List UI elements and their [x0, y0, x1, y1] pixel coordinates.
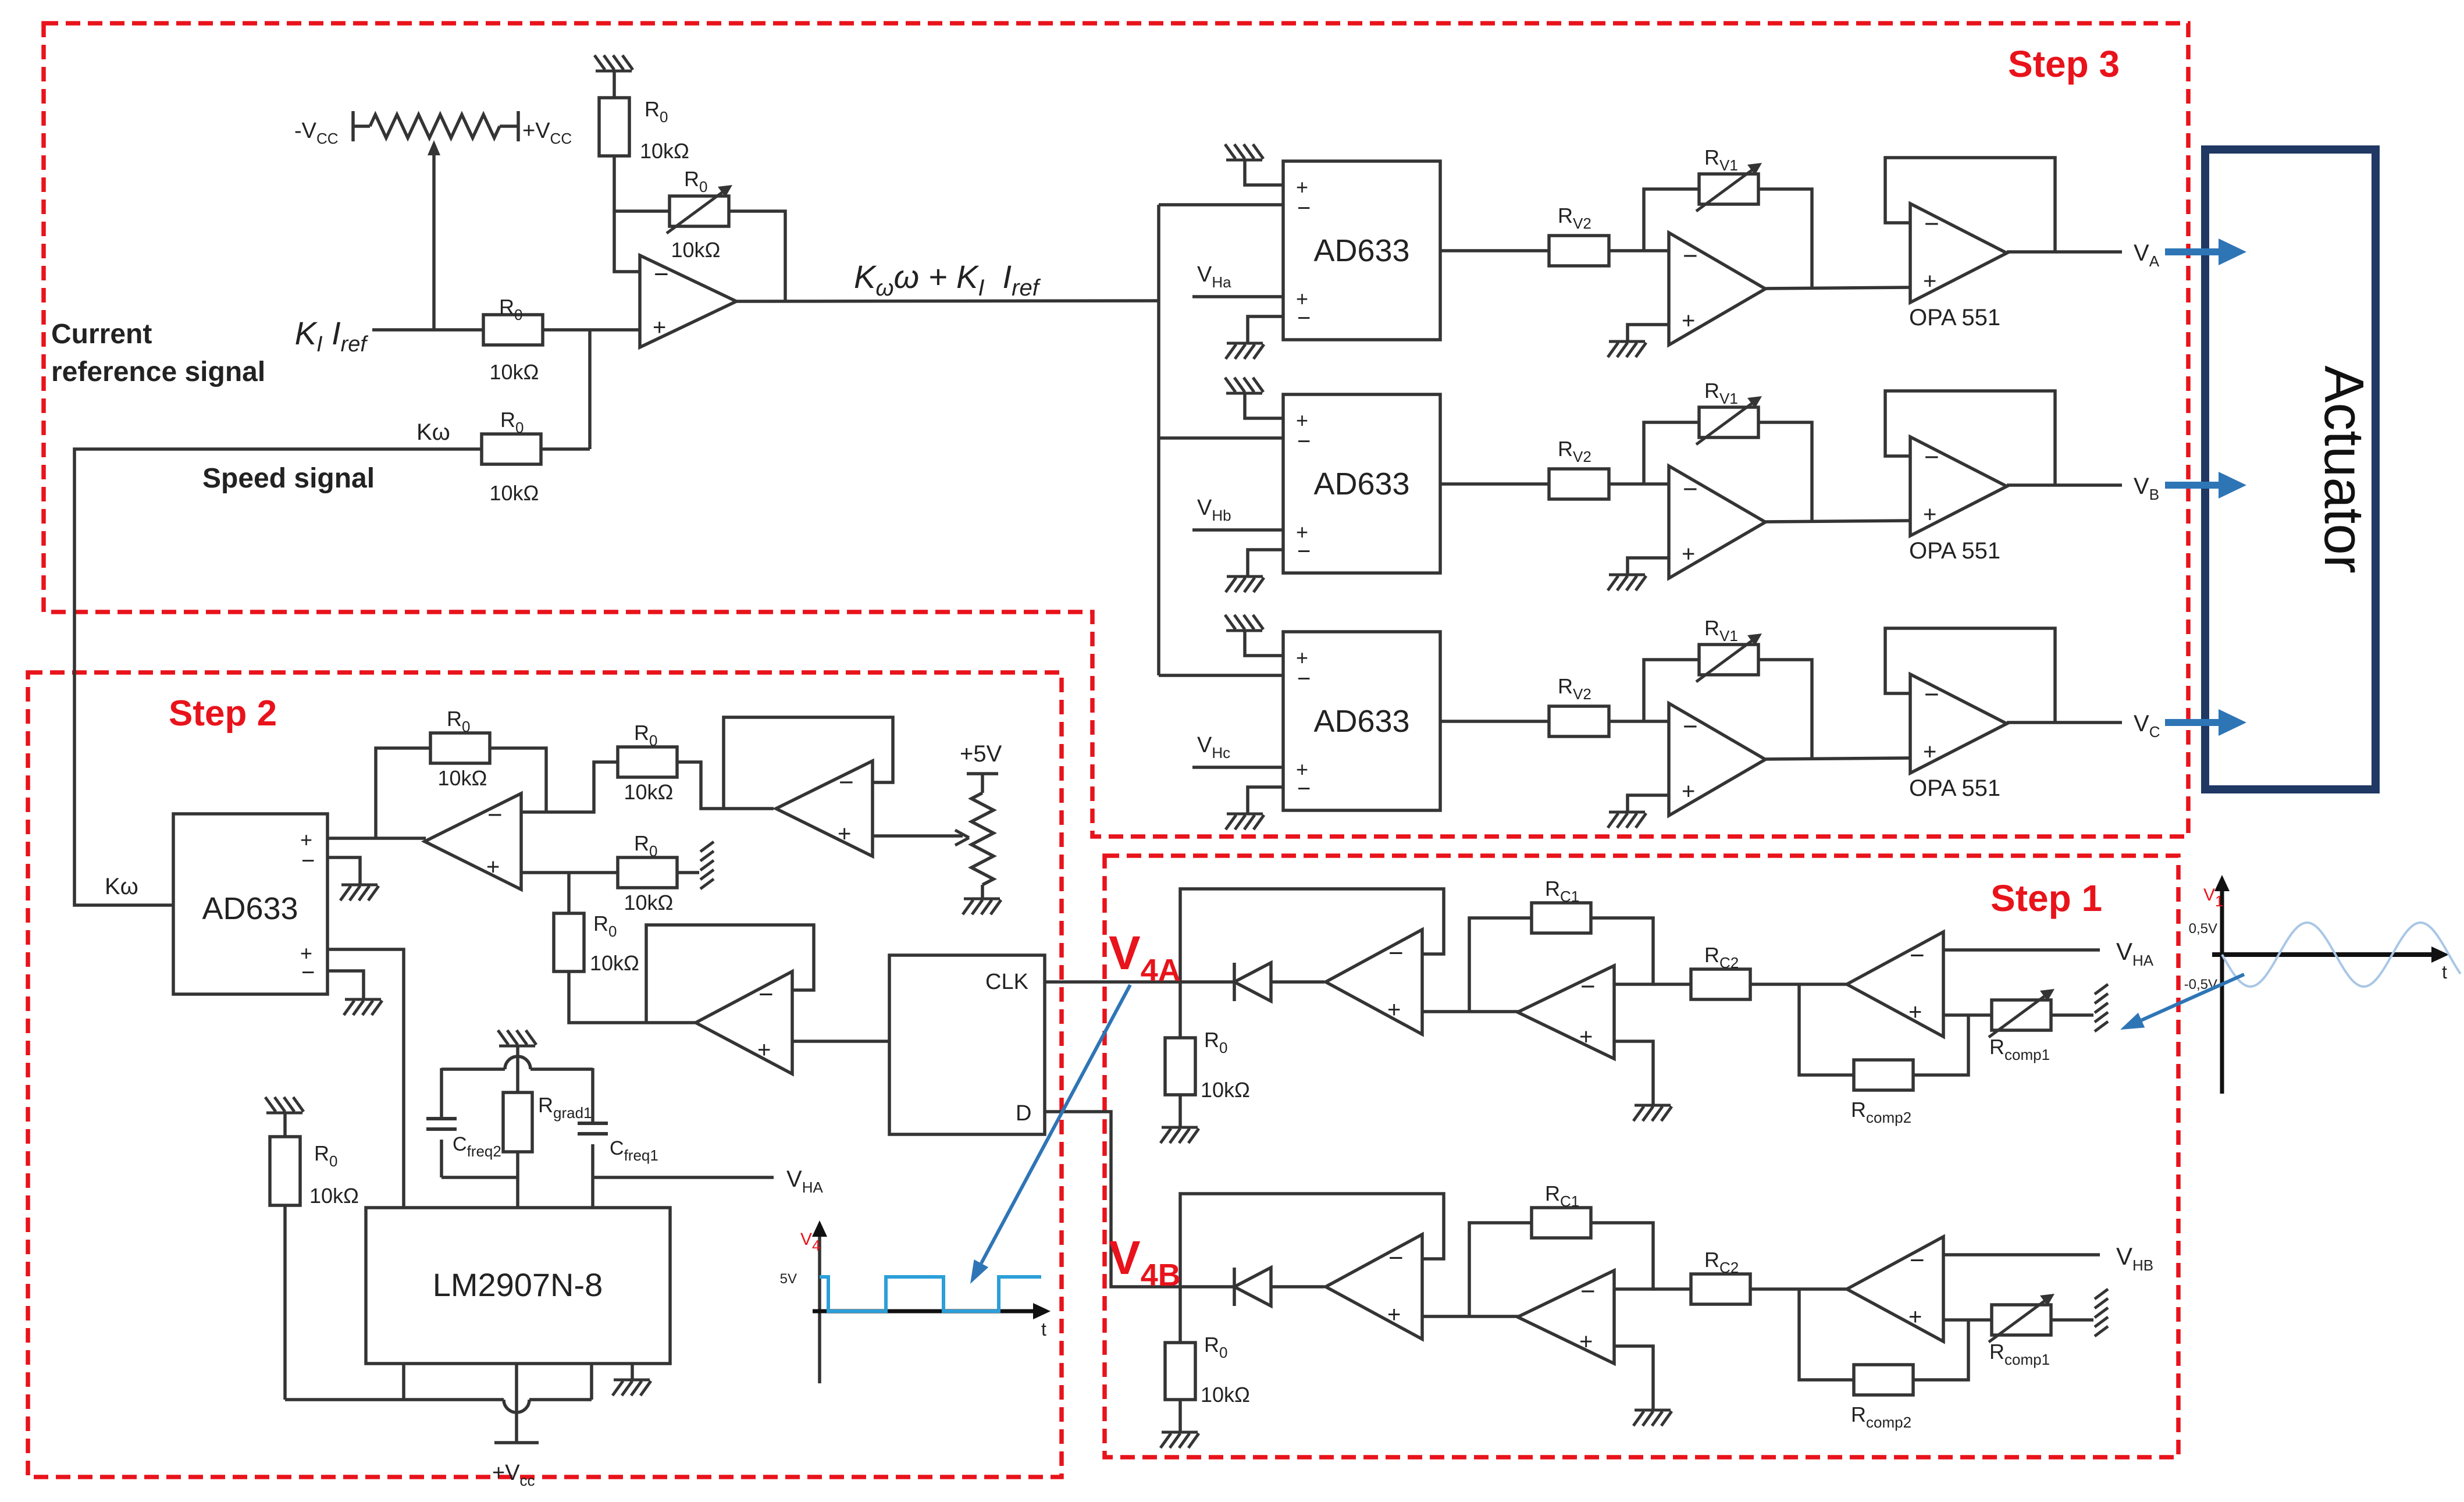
Current reference signal caption line 1 [51, 319, 152, 350]
multiplier U2 AD633 (phase A) top ground [1225, 144, 1263, 160]
multiplier U2 AD633 (phase A) bottom ground [1226, 343, 1264, 359]
wire ground to R0 pull-up [613, 71, 616, 98]
wire feedback riser (phase C) [1644, 660, 1699, 721]
capacitor rail bottom [441, 1176, 518, 1179]
svg-text:OPA 551: OPA 551 [1909, 775, 2000, 801]
resistor R0 divider (B) [1165, 1343, 1195, 1400]
svg-text:−: − [1924, 680, 1939, 709]
multiplier U3 AD633 (phase B) pin X2 - [1297, 429, 1311, 454]
VHB input label [2116, 1243, 2153, 1274]
Actuator box [2205, 150, 2376, 789]
U7 pin Y1 + [300, 941, 312, 965]
svg-text:+: + [1682, 308, 1695, 334]
wire R0 summing to U9 output [677, 762, 774, 809]
resistor R0 pull-up label [645, 97, 668, 126]
svg-text:+5V: +5V [960, 741, 1002, 767]
multiplier U3 AD633 (phase B) pin Y2 - [1297, 539, 1311, 564]
resistor RC2 (A) [1691, 969, 1750, 999]
ground above R0 (LM2907 bias) [265, 1097, 304, 1113]
potentiometer P2 (+5V) body [971, 793, 994, 885]
VB output label [2134, 474, 2159, 503]
resistor R0 summing label [634, 721, 657, 749]
wire U7 Y1 to LM2907 feedback [327, 949, 404, 1208]
+5V label [960, 741, 1002, 767]
Rcomp2 label (A) [1851, 1098, 1911, 1126]
svg-text:−: − [1580, 1277, 1596, 1305]
wire diode to U12 output (A) [1271, 980, 1324, 984]
wire Rcomp2 loop (B) [1913, 1320, 1968, 1380]
KI Iref input label [295, 315, 369, 357]
wire output + to Rcomp1 (B) [1943, 1318, 1991, 1322]
V4A node label [1109, 927, 1181, 988]
wire channel A feedback top loop [1180, 889, 1444, 982]
wire RV1 to output (phase A) [1759, 189, 1812, 289]
svg-text:+: + [1579, 1024, 1593, 1050]
svg-text:−: − [1683, 475, 1698, 503]
svg-text:+: + [653, 315, 666, 340]
wire + input to ground (phase C) [1628, 795, 1669, 812]
op-amp U6 OPA551 (phase A) [1910, 204, 2007, 302]
wire output + to Rcomp1 (A) [1943, 1013, 1991, 1017]
wire RV2 to inverting input (phase A) [1609, 249, 1669, 252]
wire KI Iref input to R0 [372, 328, 483, 332]
VHA input label [2116, 938, 2154, 969]
wire feedback riser step2 opamp A [376, 748, 430, 838]
capacitor Cfreq1 [578, 1123, 608, 1134]
svg-text:−: − [1388, 939, 1404, 967]
variable resistor RV1 (phase A) label [1704, 145, 1738, 174]
svg-text:+: + [486, 854, 500, 880]
svg-text:AD633: AD633 [1313, 704, 1409, 739]
ground above R0 pull-up [594, 55, 633, 71]
resistor RV2 (phase B) label [1558, 437, 1591, 465]
wire LM2907 pin6 to +Vcc [515, 1364, 518, 1443]
wire gain + to ground (A) [1614, 1041, 1653, 1105]
svg-text:Step 2: Step 2 [169, 693, 277, 734]
wire multiplier U3 AD633 (phase B) X1 to ground [1245, 393, 1283, 418]
multiplier U2 AD633 (phase A) pin X2 - [1297, 195, 1311, 221]
ground at op-amp + input (phase B) [1608, 575, 1646, 590]
wire RV2 to inverting input (phase B) [1609, 482, 1669, 486]
svg-text:10kΩ: 10kΩ [624, 891, 674, 914]
resistor R0 summing (step2) [618, 747, 677, 777]
resistor R0 feedback (U8) label [447, 707, 470, 735]
resistor R0 divider (A) label [1204, 1028, 1227, 1056]
resistor R0 to ground (step2) [618, 857, 677, 888]
svg-text:Kω: Kω [105, 874, 138, 899]
wire phase B AD633 output to RV2 [1440, 482, 1549, 486]
ground below R0 divider (A) [1160, 1127, 1199, 1143]
variable resistor R0 feedback value [671, 238, 721, 262]
resistor R0 bias (LM2907) [270, 1137, 300, 1205]
svg-text:−: − [1910, 1246, 1925, 1275]
wire U7 Y2 to ground [327, 971, 364, 999]
VC output label [2134, 711, 2160, 741]
multiplier U4 AD633 (phase C) pin X1 + [1296, 646, 1308, 670]
ground below R0 divider (B) [1160, 1432, 1199, 1448]
wire Cfreq1 bottom [591, 1144, 594, 1177]
op-amp U6 OPA551 (phase C) [1910, 674, 2007, 773]
Rcomp2 label (B) [1851, 1403, 1911, 1431]
+5V terminal bar [967, 772, 998, 775]
resistor RV2 (phase C) [1549, 706, 1609, 736]
svg-text:−: − [1297, 666, 1311, 692]
variable resistor RV1 (phase B) [1696, 396, 1762, 444]
svg-text:−: − [1910, 941, 1925, 970]
wire multiplier U4 AD633 (phase C) VH input [1192, 766, 1283, 769]
resistor R0 (KI input) label [499, 295, 522, 323]
svg-text:10kΩ: 10kΩ [309, 1184, 359, 1208]
op-amp U9 (step 2 comparator) [776, 761, 873, 856]
U7 pin Y2 - [301, 960, 315, 985]
wire R0 series to U10 output [569, 971, 697, 1023]
wire Cfreq1 node to LM2907 pin3 [591, 1177, 594, 1208]
op-amp U5 (phase C) [1669, 703, 1765, 816]
wire RC2 to output stage (B) [1750, 1287, 1849, 1291]
wire Rcomp2 to output node (B) [1799, 1289, 1854, 1380]
op-amp U5 (phase B) [1669, 466, 1765, 578]
ground at gain + (B) [1633, 1410, 1672, 1426]
blue arrow VA into actuator [2165, 239, 2246, 265]
svg-text:−: − [759, 980, 774, 1009]
multiplier U3 AD633 (phase B) top ground [1225, 378, 1263, 393]
blue arrow sine to ground reference [2120, 974, 2244, 1030]
Step 2 dashed region border [28, 672, 1062, 1477]
resistor R0 (KI input) value [490, 360, 539, 384]
wire Cfreq2 bottom [440, 1140, 443, 1177]
ground below P2 [963, 899, 1001, 914]
svg-text:+: + [1387, 997, 1401, 1023]
wire speed signal long run [74, 449, 482, 905]
svg-text:−: − [839, 768, 854, 796]
resistor R0 series label [593, 912, 617, 940]
variable resistor R0 feedback label [684, 167, 707, 195]
wire multiplier U3 AD633 (phase B) VH input [1192, 528, 1283, 532]
wire U9 feedback loop [724, 717, 893, 809]
wire Rgrad1 to bottom rail [516, 1152, 519, 1177]
wall ground Rcomp1 (A) [2095, 984, 2108, 1031]
op-amp comparator (A) [1326, 930, 1422, 1034]
multiplier U2 AD633 (phase A) pin Y2 - [1297, 305, 1311, 331]
wire U10 + input to flip-flop [792, 1040, 889, 1043]
resistor Rgrad1 [503, 1092, 532, 1152]
svg-text:Step 3: Step 3 [2008, 43, 2120, 85]
resistor R0 divider (B) label [1204, 1333, 1227, 1361]
Rcomp1 label (A) [1989, 1035, 2050, 1063]
wire RC1 to - input (A) [1591, 918, 1653, 984]
+Vcc terminal bar [494, 1441, 539, 1444]
multiplier U2 AD633 (phase A) pin Y1 + [1296, 287, 1308, 311]
wire multiplier U2 AD633 (phase A) Y2 to ground [1248, 316, 1283, 343]
svg-text:AD633: AD633 [1313, 467, 1409, 501]
wire LM2907 pin5 down [402, 1364, 405, 1400]
svg-text:t: t [1041, 1319, 1046, 1340]
wire multiplier U4 AD633 (phase C) X2 to bus [1159, 674, 1283, 677]
flip-flop CLK pin label [985, 970, 1028, 994]
wire multiplier U2 AD633 (phase A) X1 to ground [1245, 160, 1283, 185]
variable resistor RV1 (phase C) label [1704, 616, 1738, 645]
multiplier U4 AD633 (phase C) bottom ground [1226, 814, 1264, 830]
Rcomp1 label (B) [1989, 1340, 2050, 1368]
wire multiplier U2 AD633 (phase A) VH input [1192, 295, 1283, 298]
svg-text:5V: 5V [780, 1271, 797, 1287]
Step 1 dashed region border [1105, 856, 2178, 1457]
wire R0 bias to LM2907 pin [285, 1205, 592, 1412]
wire Cfreq1 node to VHA [593, 1176, 774, 1179]
V1 graph ordinate label [2203, 885, 2223, 910]
svg-text:+: + [1923, 502, 1936, 528]
potentiometer P1 body [370, 115, 500, 138]
svg-text:Current: Current [51, 319, 152, 350]
svg-text:−: − [1297, 305, 1311, 331]
V4 graph vertical axis [812, 1220, 827, 1383]
wire +5V bar to potentiometer [981, 774, 984, 793]
wire OPA551 feedback (phase C) [1885, 628, 2055, 722]
wire comparator + to U13 output (B) [1422, 1315, 1519, 1318]
wire op-amp to OPA551 (phase B) [1765, 521, 1910, 522]
flip-flop U11 box [889, 955, 1045, 1134]
resistor R0 divider (A) [1165, 1038, 1195, 1095]
wire ground to Rgrad1 (straight stem) [516, 1047, 519, 1092]
svg-text:−: − [1924, 209, 1939, 238]
resistor R0 feedback (U8) [430, 733, 490, 763]
OPA 551 label (phase A) [1909, 305, 2000, 330]
wire V4B to R0 divider [1178, 1287, 1182, 1343]
ground at op-amp + input (phase A) [1608, 341, 1646, 357]
wire Rcomp2 to output node (A) [1799, 984, 1854, 1075]
capacitor Cfreq1 label [610, 1137, 658, 1164]
resistor R0 feedback (U8) value [438, 766, 487, 790]
svg-text:10kΩ: 10kΩ [671, 238, 721, 262]
resistor RC1 (A) label [1545, 877, 1579, 905]
resistor RC2 (A) label [1704, 943, 1739, 971]
wire R0 divider to ground (A) [1178, 1095, 1182, 1127]
wire U9 + input to +5V pot [873, 834, 963, 838]
resistor RV2 (phase A) label [1558, 204, 1591, 232]
Kw speed label [416, 419, 450, 445]
wire phase C AD633 output to RV2 [1440, 720, 1549, 723]
resistor R0 to ground label [634, 831, 657, 860]
op-amp U5 (phase A) [1669, 233, 1765, 345]
svg-text:10kΩ: 10kΩ [490, 360, 539, 384]
svg-text:0,5V: 0,5V [2189, 921, 2217, 937]
potentiometer P1 wiper arrow [428, 140, 440, 330]
V4B node label [1109, 1232, 1181, 1293]
wire Kw resistor to junction [541, 447, 590, 451]
VA output label [2134, 240, 2160, 270]
resistor RV2 (phase B) [1549, 469, 1609, 499]
wire U8 + input run [521, 871, 618, 874]
variable resistor RV1 (phase B) label [1704, 379, 1738, 407]
svg-text:AD633: AD633 [202, 891, 298, 926]
LM2907N-8 box [366, 1208, 670, 1364]
wire OPA551 feedback (phase A) [1885, 158, 2055, 252]
wire OPA551 output (phase C) [2007, 721, 2122, 724]
wire U7 X2 to ground [327, 857, 360, 885]
wire diode to U12 output (B) [1271, 1285, 1324, 1289]
wire + input to ground (phase A) [1628, 325, 1669, 341]
resistor Rgrad1 label [538, 1093, 592, 1122]
Kw label near AD633 [105, 874, 138, 899]
svg-text:−: − [301, 960, 315, 985]
svg-text:−: − [1683, 241, 1698, 270]
resistor R0 bias value [309, 1184, 359, 1208]
wire Rcomp1 to ground (A) [2052, 1013, 2093, 1017]
resistor R0 series (to U10) [554, 913, 584, 971]
svg-text:10kΩ: 10kΩ [1201, 1383, 1250, 1407]
multiplier U4 AD633 (phase C) pin Y2 - [1297, 776, 1311, 802]
multiplier U3 AD633 (phase B) box [1283, 394, 1440, 573]
svg-text:OPA 551: OPA 551 [1909, 305, 2000, 330]
wire RV2 to inverting input (phase C) [1609, 720, 1669, 723]
op-amp U8 (step 2) [425, 793, 521, 889]
resistor R0 divider (B) value [1201, 1383, 1250, 1407]
-Vcc supply label [294, 119, 339, 147]
ground at U7 Y2 [344, 999, 382, 1015]
Step 3 title [2008, 43, 2120, 85]
multiplier U4 AD633 (phase C) top ground [1225, 615, 1263, 631]
V4 graph ordinate label [800, 1230, 820, 1254]
multiplier U3 AD633 (phase B) pin X1 + [1296, 408, 1308, 432]
resistor RC2 (B) label [1704, 1248, 1739, 1276]
multiplier U3 AD633 (phase B) bottom ground [1226, 576, 1264, 592]
op-amp comparator (B) [1326, 1234, 1422, 1339]
svg-text:Actuator: Actuator [2313, 365, 2375, 574]
wire gain - input to RC2 (A) [1653, 983, 1691, 986]
wire U8 - input to R0 summing [546, 762, 618, 812]
svg-text:+: + [1682, 542, 1695, 567]
variable resistor Rcomp1 (B) [1989, 1294, 2054, 1342]
U7 pin X1 + [300, 828, 312, 852]
wire U10 feedback loop [646, 925, 814, 1023]
resistor RC1 (B) [1532, 1208, 1591, 1238]
svg-text:−: − [1297, 429, 1311, 454]
variable resistor RV1 (phase C) [1696, 633, 1762, 682]
variable resistor R0 feedback [667, 185, 732, 233]
capacitor rail top (hops over stem) [441, 1056, 593, 1069]
potentiometer P1 left terminal [353, 111, 370, 141]
wall ground Rcomp1 (B) [2095, 1289, 2108, 1336]
multiplier U3 AD633 (phase B) pin Y1 + [1296, 520, 1308, 544]
wire node A down to speed branch [588, 330, 592, 449]
multiplier U4 AD633 (phase C) pin Y1 + [1296, 757, 1308, 781]
V1 graph -0,5V tick [2184, 977, 2217, 992]
multiplier U7 AD633 (speed) box [173, 814, 327, 994]
wire LM2907 pin7 to ground [631, 1364, 634, 1380]
V1 graph horizontal axis [2212, 946, 2449, 963]
+Vcc supply label [522, 119, 572, 147]
node bus vertical (sum distribution) [1157, 205, 1160, 675]
svg-text:+: + [1908, 999, 1922, 1025]
Step 1 title [1991, 877, 2102, 919]
wire R0 to summing node [543, 328, 640, 332]
wire U7 X1 output [327, 837, 426, 840]
Step 3 dashed region border [44, 23, 2188, 837]
wall ground (step2 R0) [700, 842, 714, 889]
resistor Rcomp2 (B) [1854, 1365, 1913, 1395]
svg-text:10kΩ: 10kΩ [624, 780, 674, 804]
wire multiplier U3 AD633 (phase B) Y2 to ground [1248, 550, 1283, 576]
svg-text:+: + [838, 821, 851, 847]
V1 graph vertical axis [2214, 875, 2230, 1094]
wire RV1 to output (phase B) [1759, 422, 1812, 522]
wire Cfreq1 top [591, 1068, 594, 1123]
wire RC1 to - input (B) [1591, 1223, 1653, 1289]
wire V4A node to diode [1180, 980, 1234, 984]
wire V4A to R0 divider [1178, 982, 1182, 1038]
Step 2 title [169, 693, 277, 734]
op-amp U1 summing [640, 255, 736, 347]
svg-text:D: D [1016, 1101, 1031, 1126]
blue arrow VC into actuator [2165, 709, 2246, 736]
op-amp gain stage (A) [1518, 966, 1614, 1059]
wire rail to LM2907 pin2 [516, 1177, 519, 1208]
VHA label (step2 input) [786, 1166, 823, 1196]
variable resistor Rcomp1 (A) [1989, 989, 2054, 1037]
svg-text:10kΩ: 10kΩ [438, 766, 487, 790]
wire feedback to output [729, 211, 785, 301]
V4 square waveform [820, 1277, 1041, 1311]
svg-text:t: t [2442, 962, 2447, 983]
svg-text:−: − [1580, 972, 1596, 1001]
svg-text:+: + [1923, 269, 1936, 294]
wire channel B feedback top loop [1180, 1194, 1444, 1287]
wire multiplier U2 AD633 (phase A) X2 to bus [1159, 203, 1283, 207]
svg-text:+: + [1387, 1302, 1401, 1327]
wire op-amp to OPA551 (phase A) [1765, 287, 1910, 289]
multiplier U3 AD633 (phase B) VH input label [1197, 496, 1231, 524]
V1 graph t label [2442, 962, 2447, 983]
resistor R0 (Kw input) label [500, 408, 524, 436]
wire U8 - input stub [521, 810, 546, 814]
wire Rcomp1 to ground (B) [2052, 1318, 2093, 1322]
svg-text:−: − [654, 260, 669, 289]
svg-text:10kΩ: 10kΩ [490, 481, 539, 505]
OPA 551 label (phase B) [1909, 538, 2000, 564]
resistor RC2 (B) [1691, 1274, 1750, 1304]
V4 graph horizontal axis [813, 1303, 1051, 1319]
svg-text:reference signal: reference signal [51, 357, 265, 387]
svg-text:−: − [1924, 443, 1939, 471]
wire R0 pull-up to inverting node [614, 156, 640, 272]
ground at LM2907 pin7 [613, 1380, 651, 1396]
wire R0 feedback to - input (U8) [490, 748, 546, 812]
svg-text:+: + [1923, 739, 1936, 765]
op-amp output stage (A) [1847, 932, 1943, 1037]
svg-text:−: − [1297, 776, 1311, 802]
svg-text:+: + [757, 1037, 771, 1063]
svg-text:−: − [1297, 195, 1311, 221]
wire comparator + to U13 output (A) [1422, 1010, 1519, 1013]
resistor RV2 (phase C) label [1558, 674, 1591, 703]
V4 graph t label [1041, 1319, 1046, 1340]
svg-text:AD633: AD633 [1313, 233, 1409, 268]
wire R0 to wall ground [677, 871, 699, 874]
wire R0 divider to ground (B) [1178, 1400, 1182, 1432]
wire Rcomp2 loop (A) [1913, 1015, 1968, 1075]
wire RC2 to output stage (A) [1750, 983, 1849, 986]
Speed signal caption [202, 463, 375, 494]
svg-text:10kΩ: 10kΩ [1201, 1078, 1250, 1102]
resistor R0 pull-up (summing) [599, 98, 629, 156]
V1 sine waveform [2222, 923, 2461, 987]
Actuator label [2313, 365, 2375, 574]
ground at U7 X2 [340, 885, 379, 901]
diode D (A) [1234, 963, 1271, 1001]
V1 graph 0,5V tick [2189, 921, 2217, 937]
resistor R0 divider (A) value [1201, 1078, 1250, 1102]
ground at gain + (A) [1633, 1105, 1672, 1121]
